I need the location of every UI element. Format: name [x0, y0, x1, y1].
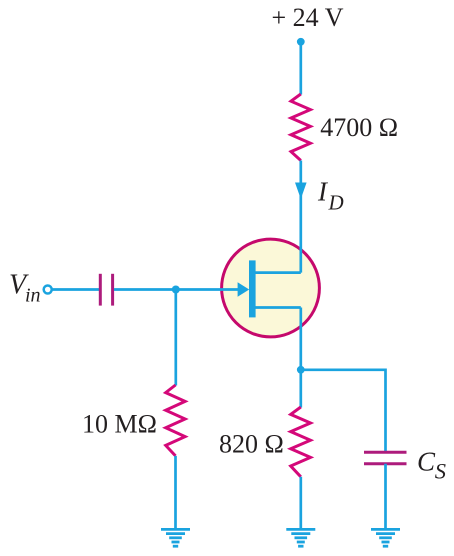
coupling capacitor right plate [111, 274, 114, 306]
node gate junction dot [172, 286, 180, 294]
wire resistor 10M to ground 1 [174, 456, 177, 529]
wire gate node to JFET gate [176, 288, 239, 291]
resistor 820 ohm [291, 407, 311, 477]
svg-text:C: C [417, 447, 436, 477]
svg-text:4700 Ω: 4700 Ω [320, 113, 398, 142]
JFET gate arrow [238, 282, 250, 297]
ground 2 [286, 529, 315, 546]
wire Vin terminal to coupling capacitor [52, 288, 99, 291]
node source junction dot [297, 366, 305, 374]
wire source node to resistor 820 [299, 370, 302, 408]
JFET drain lead inside body [252, 271, 301, 274]
svg-text:S: S [435, 458, 446, 483]
svg-text:in: in [25, 285, 41, 307]
svg-text:820 Ω: 820 Ω [219, 430, 284, 459]
input terminal Vin open circle [44, 286, 52, 294]
JFET channel bar [249, 260, 256, 317]
capacitor CS top plate [364, 451, 407, 454]
JFET U1 body circle [222, 239, 320, 337]
ground 1 [161, 529, 190, 546]
wire source node to capacitor CS [301, 370, 386, 452]
wire gate node to resistor 10M [174, 290, 177, 386]
current arrow ID [295, 183, 307, 200]
wire coupling capacitor to gate node [114, 288, 176, 291]
resistor 10 Mohm [166, 385, 185, 456]
coupling capacitor left plate [99, 274, 102, 306]
svg-text:+ 24 V: + 24 V [272, 3, 344, 32]
JFET source lead inside body [252, 306, 301, 309]
resistor 4700 ohm [291, 94, 310, 161]
svg-text:10 MΩ: 10 MΩ [82, 409, 157, 438]
wire JFET source to source node [299, 308, 302, 370]
node VDD supply dot [297, 38, 305, 46]
capacitor CS bottom plate [364, 462, 407, 465]
svg-text:D: D [328, 191, 344, 215]
wire supply to resistor 4700 [299, 42, 302, 95]
ground 3 [371, 529, 400, 546]
wire resistor 4700 to JFET drain [299, 161, 302, 273]
wire capacitor CS to ground 3 [384, 464, 387, 529]
wire resistor 820 to ground 2 [299, 477, 302, 529]
